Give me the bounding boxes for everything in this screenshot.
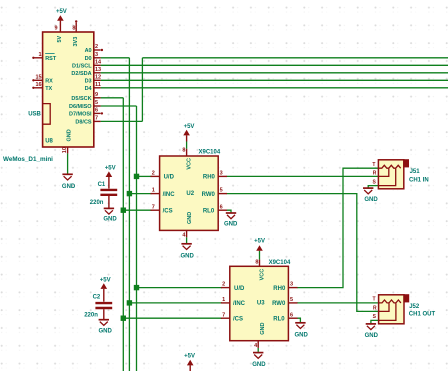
svg-text:7: 7: [152, 204, 155, 210]
svg-text:X9C104: X9C104: [199, 149, 221, 155]
svg-text:9: 9: [95, 92, 98, 98]
U8 pin 2 A0 (unconnected): [85, 44, 104, 54]
svg-text:RH0: RH0: [203, 175, 216, 181]
svg-text:+5V: +5V: [254, 239, 265, 245]
wire vertical V1 (net D0 down to pots pin 1): [128, 58, 130, 371]
svg-text:5: 5: [95, 100, 98, 106]
svg-text:5: 5: [290, 297, 293, 303]
svg-text:D2/SDA: D2/SDA: [71, 71, 91, 77]
junction V1/U2 pin 1: [127, 191, 132, 196]
svg-text:8: 8: [182, 148, 185, 154]
svg-text:3: 3: [95, 52, 98, 58]
svg-text:GND: GND: [66, 129, 72, 141]
U2 pin 7 /CS: [152, 204, 173, 214]
capacitor C1: [90, 182, 117, 208]
svg-text:220n: 220n: [84, 313, 98, 319]
U8 pin 12 D3: [85, 74, 102, 84]
wire U3 VCC pin to +5V: [259, 251, 261, 260]
wire U3 GND pin to ground: [257, 348, 259, 352]
wire branch V0 to U3 pin 7: [123, 317, 222, 319]
wire J51.S to ground: [368, 186, 378, 188]
svg-text:7: 7: [95, 116, 98, 122]
U2 pin 2 U/D: [152, 171, 175, 181]
ground at U2 RL0: [224, 213, 238, 227]
junction V3/U3 pin 2: [134, 285, 139, 290]
U8 pin 14 D1/SCL: [72, 59, 102, 69]
wire net D5 from U8.D5 to vertical V0: [101, 97, 124, 99]
junction V1/U3 pin 1: [127, 300, 132, 305]
svg-text:TX: TX: [45, 86, 52, 92]
svg-text:/INC: /INC: [163, 192, 176, 198]
U8 pin 9 5V: [55, 26, 63, 43]
svg-text:8: 8: [255, 259, 258, 265]
U8 right pin stubs: [94, 50, 101, 121]
U8 pin 15 RX (unconnected): [32, 74, 53, 84]
U3 pin 1 /INC: [222, 297, 246, 307]
U3 pin 8 VCC: [255, 259, 265, 280]
svg-text:D8/CS: D8/CS: [75, 120, 92, 126]
svg-text:+5V: +5V: [184, 353, 195, 359]
U2 pin 4 GND: [182, 212, 193, 239]
U8 pin 16 TX (unconnected): [32, 82, 52, 92]
svg-text:R: R: [373, 306, 377, 312]
svg-text:RX: RX: [45, 79, 53, 85]
U3 pin 6 RL0: [273, 312, 293, 322]
svg-text:T: T: [373, 297, 376, 303]
svg-text:5V: 5V: [57, 35, 63, 42]
wire net D2 to right edge: [101, 72, 448, 74]
U2 pin 1 /INC: [152, 188, 176, 198]
U2 pin stubs: [151, 149, 228, 238]
ground at J52.S: [365, 324, 379, 339]
svg-text:+5V: +5V: [56, 9, 67, 15]
svg-text:D5/SCK: D5/SCK: [71, 96, 91, 102]
svg-text:1: 1: [152, 188, 155, 194]
svg-text:CH1 IN: CH1 IN: [409, 177, 429, 183]
svg-text:15: 15: [35, 74, 41, 80]
svg-text:13: 13: [95, 67, 101, 73]
svg-text:RW0: RW0: [202, 192, 216, 198]
U2 pin 5 RW0: [202, 188, 223, 198]
wire net D8 from U8.D8 to vertical V2: [101, 120, 143, 122]
wire U3.RL0 to ground: [297, 318, 300, 322]
svg-text:J51: J51: [410, 169, 421, 175]
svg-text:GND: GND: [224, 221, 238, 227]
U3 pin 7 /CS: [222, 312, 243, 322]
svg-text:GND: GND: [260, 323, 266, 335]
svg-text:VCC: VCC: [187, 158, 193, 170]
U8 pin 13 D2/SDA: [71, 67, 101, 77]
U8 pin 10 GND: [62, 129, 72, 153]
svg-text:GND: GND: [252, 362, 266, 368]
svg-text:6: 6: [220, 204, 223, 210]
wire vertical V3 (net D6 down to pots pin 2): [136, 106, 138, 371]
svg-text:10: 10: [62, 147, 68, 153]
svg-text:U3: U3: [257, 300, 265, 306]
svg-text:USB: USB: [28, 112, 41, 118]
svg-text:9: 9: [55, 26, 58, 32]
J51 pin R internal: [373, 169, 389, 177]
svg-text:11: 11: [95, 82, 101, 88]
svg-text:J52: J52: [409, 304, 420, 310]
svg-text:RL0: RL0: [203, 208, 215, 214]
svg-text:+5V: +5V: [184, 124, 195, 130]
+5V supply above U8: [56, 9, 67, 32]
junction V0/U2 pin 7: [121, 208, 126, 213]
svg-text:16: 16: [35, 82, 41, 88]
svg-text:+5V: +5V: [105, 165, 116, 171]
+5V supply above U3: [254, 239, 265, 251]
wire vertical V2 (net D8 up): [141, 58, 143, 122]
wire J51.T to U3.RH0: [297, 168, 378, 287]
+5V supply above C1: [105, 165, 116, 188]
svg-text:RL0: RL0: [273, 316, 285, 322]
svg-text:WeMos_D1_mini: WeMos_D1_mini: [3, 156, 53, 163]
wire U8 GND pin to ground: [67, 153, 69, 173]
U3 pin 5 RW0: [272, 297, 293, 307]
wire U3.RW0 to J52.T: [297, 302, 378, 304]
U3 pin 3 RH0: [273, 282, 293, 292]
U3 pin 2 U/D: [222, 282, 245, 292]
svg-text:D0: D0: [85, 56, 92, 62]
svg-text:R: R: [373, 171, 377, 177]
wire net D0 from U8.D0 to vertical V1: [101, 57, 130, 59]
svg-text:/INC: /INC: [233, 301, 246, 307]
svg-text:D3: D3: [85, 78, 92, 84]
svg-text:GND: GND: [364, 197, 378, 203]
svg-text:GND: GND: [99, 329, 113, 335]
U8 USB tab: [28, 104, 50, 125]
wire branch V1 to U3 pin 1: [129, 302, 222, 304]
svg-text:3V3: 3V3: [73, 37, 79, 47]
svg-text:8: 8: [72, 26, 75, 32]
wire vertical V0 (net D5 down to pots pin 7): [122, 98, 124, 371]
svg-text:7: 7: [222, 312, 225, 318]
svg-text:2: 2: [222, 282, 225, 288]
wire U2.RL0 to ground: [227, 210, 231, 212]
svg-text:2: 2: [95, 44, 98, 50]
wire net D6 from U8.D6 to vertical V3: [101, 105, 137, 107]
junction V3/U2 pin 2: [134, 174, 139, 179]
wire branch V3 to U3 pin 2: [137, 287, 223, 289]
svg-text:RW0: RW0: [272, 301, 286, 307]
svg-text:GND: GND: [295, 333, 309, 339]
svg-text:X9C104: X9C104: [269, 260, 291, 266]
J52 pin S internal: [373, 303, 396, 320]
+5V supply above U2: [183, 124, 194, 141]
svg-text:+5V: +5V: [100, 278, 111, 284]
U3 pin 4 GND: [254, 323, 266, 349]
svg-text:1: 1: [222, 297, 225, 303]
wire branch V1 to U2 pin 1: [129, 193, 151, 195]
J51 pin T internal: [372, 162, 375, 168]
svg-text:5: 5: [220, 188, 223, 194]
wire branch V0 to U2 pin 7: [123, 209, 151, 211]
digital potentiometer U3 X9C104 body: [230, 266, 289, 340]
svg-text:3: 3: [290, 282, 293, 288]
svg-text:GND: GND: [62, 184, 76, 190]
svg-text:220n: 220n: [90, 200, 104, 206]
U8 pin 1 RST (unconnected): [32, 52, 57, 62]
capacitor C2: [84, 295, 112, 320]
U3 pin stubs: [221, 260, 298, 348]
U8 pin 5 D6/MISO: [69, 100, 98, 110]
wire net D8 to right edge: [142, 57, 448, 59]
U8 pin 3 D0: [85, 52, 98, 62]
svg-text:D4: D4: [85, 86, 93, 92]
J51 contacts: [378, 165, 400, 168]
ground at U3 RL0: [295, 323, 309, 339]
U8 pin 9b D5/SCK: [71, 92, 98, 102]
wire net D1 to right edge: [101, 64, 448, 66]
svg-text:C2: C2: [93, 295, 101, 301]
audio jack J51 body: [378, 159, 409, 189]
U8 pin 8 3V3 (unconnected): [72, 20, 79, 46]
+5V supply at bottom edge: [184, 353, 195, 371]
svg-text:U2: U2: [186, 191, 194, 197]
svg-text:VCC: VCC: [259, 269, 265, 281]
svg-text:/CS: /CS: [163, 208, 173, 214]
wire U2 GND pin to ground: [186, 237, 188, 243]
ground below C2: [99, 320, 113, 335]
svg-text:U/D: U/D: [164, 175, 175, 181]
ground below C1: [103, 208, 117, 222]
svg-text:1: 1: [39, 52, 42, 58]
svg-text:D1/SCL: D1/SCL: [72, 63, 92, 69]
J52 pin R internal: [373, 303, 389, 311]
J51 pin S internal: [372, 169, 395, 186]
svg-text:A0: A0: [85, 48, 92, 54]
svg-text:U8: U8: [45, 138, 53, 144]
svg-text:RH0: RH0: [273, 286, 286, 292]
U8 pin 6 D7/MOSI (unconnected): [69, 108, 103, 118]
wire J52.S to ground: [371, 320, 379, 323]
svg-text:GND: GND: [187, 212, 193, 224]
ground below U3: [252, 353, 266, 368]
module U8 WeMos D1 mini body: [43, 32, 94, 147]
U2 pin 8 VCC: [182, 148, 192, 170]
+5V supply above C2: [100, 278, 111, 302]
svg-text:3: 3: [220, 171, 223, 177]
svg-text:6: 6: [95, 108, 98, 114]
U8 pin 11 D4: [85, 82, 101, 92]
svg-text:D7/MOSI: D7/MOSI: [69, 112, 92, 118]
U2 pin 3 RH0: [203, 171, 223, 181]
svg-text:GND: GND: [365, 333, 379, 339]
digital potentiometer U2 X9C104 body: [160, 156, 219, 230]
wire U2.RW0 to J52.R: [227, 194, 379, 312]
wire U2.RH0 to J51.R: [227, 175, 379, 177]
ground below U8: [62, 174, 76, 190]
wire branch V3 to U2 pin 2: [137, 175, 152, 177]
J52 pin T internal: [373, 297, 376, 303]
svg-text:GND: GND: [103, 217, 117, 223]
J52 contacts: [379, 300, 401, 303]
svg-text:C1: C1: [98, 182, 106, 188]
U8 pin 7 D8/CS: [75, 116, 98, 126]
svg-text:U/D: U/D: [234, 286, 245, 292]
svg-text:GND: GND: [181, 253, 195, 259]
svg-text:T: T: [372, 162, 375, 168]
junction V0/U3 pin 7: [121, 316, 126, 321]
wire net D3 to right edge: [101, 79, 448, 81]
svg-text:RST: RST: [45, 56, 57, 62]
audio jack J52 body: [379, 294, 410, 324]
U2 pin 6 RL0: [203, 204, 223, 214]
svg-text:6: 6: [290, 312, 293, 318]
wire net D4 to right edge: [101, 87, 448, 89]
svg-text:14: 14: [95, 59, 102, 65]
svg-text:12: 12: [95, 74, 101, 80]
ground below U2: [181, 244, 195, 260]
ground at J51.S: [363, 188, 378, 203]
svg-text:CH1 OUT: CH1 OUT: [409, 312, 436, 318]
svg-text:2: 2: [152, 171, 155, 177]
wire U2 VCC pin to +5V: [186, 142, 188, 149]
svg-text:/CS: /CS: [233, 316, 243, 322]
svg-text:D6/MISO: D6/MISO: [69, 104, 92, 110]
